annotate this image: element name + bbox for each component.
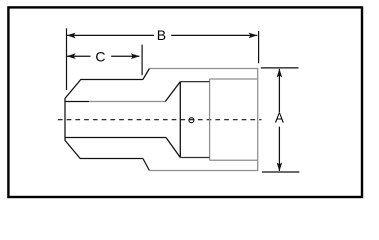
arrow B left <box>67 33 76 39</box>
bore line bottom <box>65 137 166 139</box>
A top extension tick <box>261 67 299 69</box>
body outline (gray) <box>149 69 257 171</box>
centerline <box>58 119 262 121</box>
bore line top gray <box>89 101 165 103</box>
arrow B right <box>249 33 258 39</box>
hex transition slant top <box>143 69 150 80</box>
arrow A down <box>277 162 283 171</box>
svg-text:A: A <box>275 111 284 126</box>
extension line left <box>66 28 68 90</box>
socket inner lines (gray) <box>210 79 258 160</box>
svg-text:C: C <box>95 48 105 64</box>
extension line B right <box>258 31 260 63</box>
svg-text:B: B <box>157 27 166 43</box>
cone seat <box>165 82 180 158</box>
hex transition slant bottom <box>143 159 150 171</box>
extension line C right <box>141 45 143 76</box>
orifice symbol <box>189 118 194 123</box>
arrow C right <box>131 53 140 59</box>
dimension line B <box>67 34 257 36</box>
dimension line C <box>67 55 139 57</box>
seat bore lines <box>180 82 209 158</box>
dimension line A <box>278 69 280 171</box>
A bottom extension tick <box>262 171 299 173</box>
thread outline (male end) <box>65 80 143 159</box>
border frame <box>8 7 362 197</box>
bore line top black <box>65 101 89 103</box>
arrow A up <box>277 69 283 78</box>
arrow C left <box>67 53 76 59</box>
